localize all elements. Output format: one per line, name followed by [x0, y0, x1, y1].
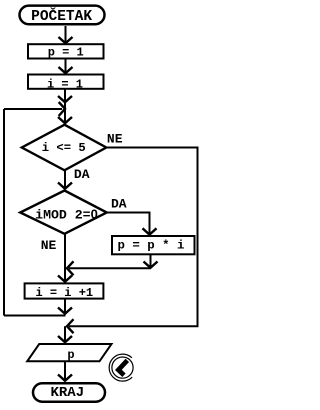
- io parallelogram p: [27, 344, 111, 361]
- arrowhead into loop junction (from loopback): [59, 102, 65, 116]
- arrowhead into diamond1: [58, 117, 72, 123]
- wire parallelogram to KRAJ: [64, 361, 66, 380]
- decision diamond iMOD 2=0: [20, 191, 107, 234]
- terminator POČETAK: [20, 6, 105, 25]
- wire i=i+1 down to loopback: [64, 299, 66, 314]
- svg-text:NE: NE: [41, 238, 57, 253]
- svg-text:POČETAK: POČETAK: [31, 7, 92, 25]
- svg-text:p: p: [67, 348, 74, 362]
- merge wire to center: [69, 267, 151, 269]
- svg-text:p = p * i: p = p * i: [118, 239, 185, 253]
- arrowhead merge into center line (left): [67, 261, 74, 275]
- arrowhead into i=1: [59, 67, 73, 73]
- wire merge point to output parallelogram: [64, 326, 66, 342]
- arrowhead onto loopback line (down): [58, 308, 72, 314]
- arrowhead into i=i+1: [58, 276, 72, 282]
- arrowhead into p=1: [59, 37, 73, 43]
- arrowhead at merge (down): [144, 262, 158, 268]
- process box p = p * i: [112, 236, 195, 254]
- arrowhead into KRAJ: [58, 375, 72, 381]
- logo outer arc: [109, 354, 132, 381]
- logo glyph: [118, 360, 127, 375]
- svg-text:p = 1: p = 1: [48, 45, 84, 59]
- loopback wire left vertical: [3, 109, 5, 316]
- arrowhead into parallelogram: [58, 336, 72, 342]
- wire i=1 to junction to diamond1: [64, 89, 66, 123]
- svg-text:DA: DA: [74, 167, 90, 182]
- process box p = 1: [28, 44, 104, 58]
- arrowhead at junction: [58, 96, 72, 102]
- arrowhead into diamond2: [58, 183, 72, 189]
- svg-text:iMOD 2=0: iMOD 2=0: [35, 206, 98, 222]
- loopback wire top horizontal: [4, 108, 62, 110]
- svg-text:KRAJ: KRAJ: [50, 385, 84, 401]
- process box i = i +1: [25, 283, 104, 298]
- logo inner circle: [112, 357, 133, 378]
- process box i = 1: [28, 75, 104, 89]
- loopback wire bottom horizontal: [4, 315, 66, 317]
- svg-text:DA: DA: [111, 197, 127, 212]
- decision diamond i <= 5: [22, 125, 107, 171]
- wire p=p*i down to merge line: [150, 254, 152, 267]
- wire diamond2 NE down to i=i+1: [64, 234, 66, 282]
- wire DA branch to p = p * i: [107, 213, 150, 235]
- wire NE branch: right, down, and merge left: [69, 148, 198, 327]
- arrowhead into p = p * i: [143, 228, 157, 234]
- terminator KRAJ: [33, 383, 105, 401]
- arrowhead NE merge (pointing left): [67, 319, 74, 333]
- svg-text:i <= 5: i <= 5: [42, 141, 86, 155]
- wire diamond1 to diamond2: [64, 170, 66, 189]
- wire p=1 to i=1: [65, 59, 67, 73]
- svg-text:i = i +1: i = i +1: [35, 286, 93, 300]
- wire start to p=1: [65, 26, 67, 43]
- svg-text:NE: NE: [107, 132, 123, 147]
